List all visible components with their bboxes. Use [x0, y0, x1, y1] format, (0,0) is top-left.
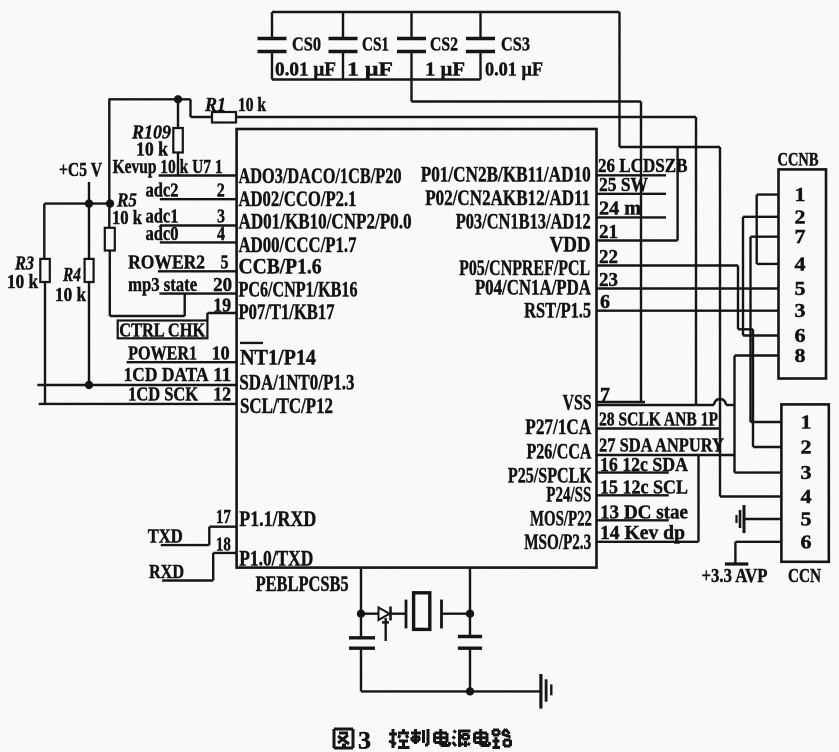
svg-text:1CD SCK: 1CD SCK: [128, 384, 198, 406]
svg-text:P1.0/TXD: P1.0/TXD: [239, 545, 313, 570]
svg-text:5: 5: [795, 278, 806, 300]
svg-text:4: 4: [795, 253, 806, 275]
svg-text:17: 17: [216, 506, 231, 528]
svg-text:RXD: RXD: [149, 561, 184, 583]
svg-text:1 μF: 1 μF: [425, 59, 465, 81]
svg-text:20: 20: [213, 274, 232, 296]
svg-text:CTRL CHK: CTRL CHK: [119, 320, 205, 342]
svg-text:R4: R4: [62, 264, 81, 286]
svg-text:AD01/KB10/CNP2/P0.0: AD01/KB10/CNP2/P0.0: [239, 209, 412, 234]
svg-text:P27/1CA: P27/1CA: [525, 414, 592, 439]
svg-text:13 DC stae: 13 DC stae: [600, 502, 688, 524]
svg-text:6: 6: [795, 325, 806, 347]
svg-text:VSS: VSS: [563, 389, 592, 414]
svg-text:23: 23: [599, 269, 618, 291]
svg-text:P02/CN2AKB12/AD11: P02/CN2AKB12/AD11: [425, 185, 590, 210]
svg-text:TXD: TXD: [148, 526, 183, 548]
svg-text:CS1: CS1: [362, 34, 389, 56]
svg-text:PEBLPCSB5: PEBLPCSB5: [256, 571, 349, 596]
svg-text:28 SCLK ANB 1P: 28 SCLK ANB 1P: [599, 409, 718, 431]
svg-text:P07/T1/KB17: P07/T1/KB17: [239, 299, 335, 324]
svg-text:5: 5: [221, 252, 229, 274]
svg-text:7: 7: [600, 384, 610, 406]
svg-text:P1.1/RXD: P1.1/RXD: [239, 506, 316, 531]
svg-text:CS2: CS2: [430, 34, 458, 56]
svg-text:10 k: 10 k: [112, 207, 143, 229]
svg-text:Kevup 10 k U7 1: Kevup 10 k U7 1: [113, 156, 223, 178]
svg-text:24 m: 24 m: [599, 197, 641, 219]
svg-text:+C5 V: +C5 V: [59, 159, 102, 181]
svg-text:P04/CN1A/PDA: P04/CN1A/PDA: [475, 275, 592, 300]
svg-text:8: 8: [795, 345, 806, 367]
svg-text:22: 22: [599, 246, 618, 268]
svg-text:RST/P1.5: RST/P1.5: [524, 298, 591, 323]
svg-text:P01/CN2B/KB11/AD10: P01/CN2B/KB11/AD10: [421, 162, 591, 187]
svg-text:0.01 μF: 0.01 μF: [275, 59, 336, 81]
svg-text:1 μF: 1 μF: [347, 59, 393, 81]
svg-text:5: 5: [801, 509, 812, 531]
svg-text:25 SW: 25 SW: [599, 174, 648, 196]
svg-text:POWER1: POWER1: [128, 343, 197, 365]
svg-text:adc0: adc0: [146, 223, 179, 245]
svg-text:mp3 state: mp3 state: [128, 274, 197, 296]
svg-text:MOS/P22: MOS/P22: [530, 506, 592, 531]
svg-text:ADO3/DACO/1CB/P20: ADO3/DACO/1CB/P20: [239, 163, 402, 188]
svg-text:P26/CCA: P26/CCA: [527, 438, 593, 463]
svg-text:2: 2: [795, 206, 806, 228]
svg-text:VDD: VDD: [550, 232, 591, 257]
svg-text:1: 1: [801, 412, 812, 434]
svg-text:MSO/P2.3: MSO/P2.3: [524, 529, 591, 554]
svg-text:6: 6: [600, 291, 610, 313]
svg-text:4: 4: [217, 223, 225, 245]
svg-text:+3.3 AVP: +3.3 AVP: [702, 565, 768, 587]
svg-text:18: 18: [216, 534, 231, 556]
svg-text:AD02/CCO/P2.1: AD02/CCO/P2.1: [239, 186, 357, 211]
svg-text:4: 4: [801, 486, 812, 508]
svg-text:2: 2: [217, 180, 225, 202]
svg-text:10 k: 10 k: [238, 94, 267, 116]
svg-text:CS0: CS0: [292, 34, 321, 56]
svg-text:CCB/P1.6: CCB/P1.6: [239, 254, 322, 279]
svg-text:0.01 μF: 0.01 μF: [485, 59, 543, 81]
svg-text:CS3: CS3: [501, 34, 530, 56]
svg-text:P24/SS: P24/SS: [546, 481, 591, 506]
svg-text:15 12c SCL: 15 12c SCL: [600, 477, 688, 499]
svg-text:P03/CN1B13/AD12: P03/CN1B13/AD12: [456, 209, 591, 234]
svg-text:7: 7: [795, 226, 806, 248]
svg-text:3: 3: [358, 728, 371, 752]
svg-text:adc2: adc2: [146, 180, 179, 202]
svg-text:10: 10: [212, 343, 230, 365]
svg-text:ROWER2: ROWER2: [128, 252, 205, 274]
svg-text:19: 19: [213, 295, 231, 317]
svg-text:6: 6: [801, 531, 812, 553]
svg-text:CCN: CCN: [788, 565, 821, 587]
svg-text:10 k: 10 k: [55, 284, 87, 306]
svg-text:NT1/P14: NT1/P14: [240, 345, 316, 370]
svg-text:SCL/TC/P12: SCL/TC/P12: [240, 393, 333, 418]
svg-text:12: 12: [213, 384, 231, 406]
svg-text:CCNB: CCNB: [778, 150, 819, 171]
svg-text:10 k: 10 k: [7, 271, 39, 293]
svg-text:1: 1: [795, 184, 806, 206]
svg-text:PC6/CNP1/KB16: PC6/CNP1/KB16: [239, 276, 358, 301]
svg-text:21: 21: [599, 221, 618, 243]
svg-text:3: 3: [795, 300, 806, 322]
svg-text:14 Kev dp: 14 Kev dp: [600, 522, 685, 544]
svg-text:SDA/1NT0/P1.3: SDA/1NT0/P1.3: [239, 370, 354, 395]
svg-text:2: 2: [801, 437, 812, 459]
svg-text:R1: R1: [204, 94, 226, 116]
svg-text:3: 3: [801, 462, 812, 484]
svg-text:16 12c SDA: 16 12c SDA: [600, 454, 688, 476]
